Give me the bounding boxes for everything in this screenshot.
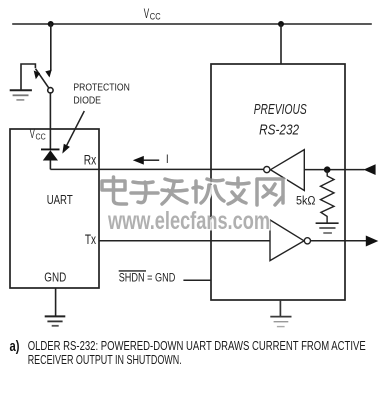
wire driver output: [311, 240, 367, 242]
svg-text:OLDER RS-232: POWERED-DOWN UAR: OLDER RS-232: POWERED-DOWN UART DRAWS CU…: [28, 338, 366, 353]
svg-text:PROTECTION: PROTECTION: [73, 82, 129, 93]
label PROTECTION DIODE: [73, 82, 129, 106]
wire VCC top rail: [13, 23, 371, 25]
current arrow I: [133, 154, 169, 166]
ground G4 under RS-232 box: [270, 300, 291, 327]
label SHDN = GND with overline: [119, 271, 176, 285]
svg-text:RECEIVER OUTPUT IN SHUTDOWN.: RECEIVER OUTPUT IN SHUTDOWN.: [28, 352, 182, 367]
op-amp U1 receiver buffer: [264, 150, 305, 191]
resistor R1 5k: [321, 170, 335, 224]
label PREVIOUS RS-232: [254, 102, 307, 139]
svg-text:UART: UART: [47, 192, 73, 207]
svg-text:a): a): [10, 338, 20, 355]
node receiver output junction: [324, 166, 331, 173]
node junction left: [48, 21, 54, 27]
wire from left junction down to switch: [50, 24, 52, 70]
watermark chinese characters: [102, 177, 285, 207]
label VCC top: [144, 5, 161, 23]
svg-text:CC: CC: [36, 131, 46, 141]
svg-text:Tx: Tx: [85, 232, 96, 247]
op-amp U2 driver buffer: [270, 220, 311, 261]
svg-text:Rx: Rx: [84, 152, 97, 167]
ground G2 under UART: [45, 288, 66, 326]
switch S1 arm wire to ground: [21, 64, 35, 90]
wire Tx line to driver: [99, 240, 270, 242]
svg-text:RS-232: RS-232: [259, 123, 299, 139]
svg-text:V: V: [144, 5, 150, 21]
wire Rx line to receiver: [50, 168, 263, 170]
wire receiver output: [304, 169, 364, 171]
node junction right: [278, 21, 284, 27]
svg-text:www.elecfans.com: www.elecfans.com: [107, 207, 270, 235]
svg-text:5kΩ: 5kΩ: [296, 195, 316, 207]
svg-text:SHDN = GND: SHDN = GND: [119, 273, 176, 285]
svg-text:I: I: [166, 154, 169, 166]
watermark www.elecfans.com: [107, 207, 271, 237]
RS-232 box: [211, 64, 345, 300]
label VCC inside UART: [30, 129, 46, 142]
switch S1 arm diagonal: [36, 70, 48, 88]
ground G3 under resistor: [316, 223, 339, 233]
arrowhead into receiver output: [364, 164, 376, 175]
ground G1 top-left: [10, 90, 32, 100]
svg-text:PREVIOUS: PREVIOUS: [254, 102, 307, 118]
diode D1 protection diode: [41, 149, 60, 169]
UART box: [10, 129, 99, 288]
wire SHDN to box: [183, 279, 211, 281]
annotation arrow to diode: [62, 111, 84, 154]
svg-text:GND: GND: [44, 270, 66, 285]
switch S1 contact circle: [48, 88, 53, 93]
switch S1 arrowhead left: [34, 71, 40, 80]
switch S1 arrowhead right: [45, 70, 51, 78]
arrowhead driver output: [366, 236, 379, 247]
wire switch to diode: [49, 93, 51, 149]
svg-text:DIODE: DIODE: [73, 95, 101, 106]
svg-text:V: V: [30, 129, 35, 141]
svg-text:CC: CC: [150, 11, 161, 22]
wire top rail to RS-232 box: [280, 24, 282, 64]
